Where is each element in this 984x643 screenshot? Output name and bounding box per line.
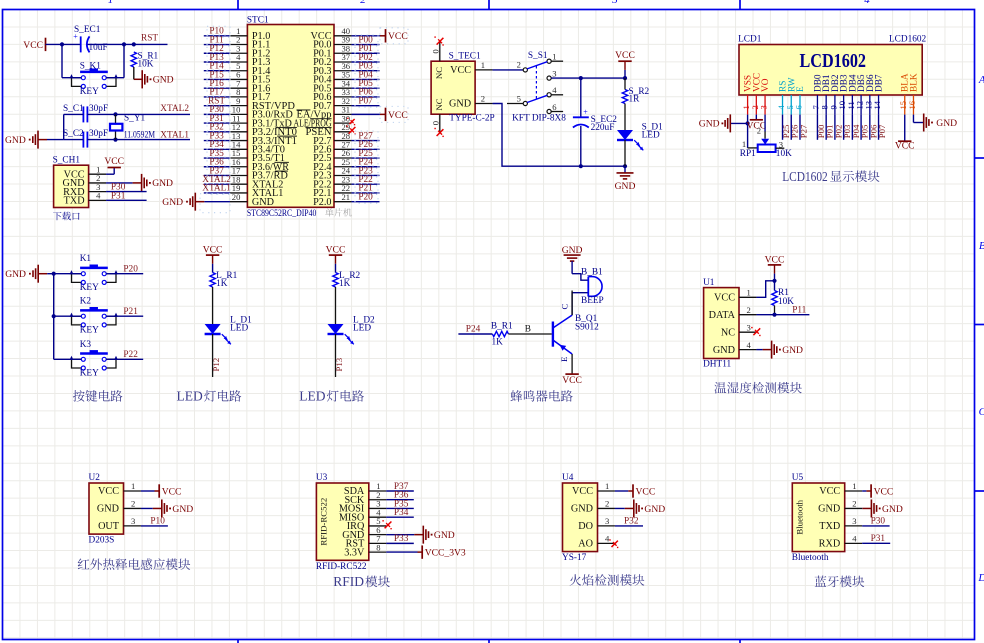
svg-text:1: 1 — [742, 139, 746, 149]
svg-text:VCC: VCC — [765, 254, 785, 265]
svg-text:XTAL2: XTAL2 — [160, 104, 189, 114]
svg-text:VCC: VCC — [572, 486, 593, 497]
svg-text:P33: P33 — [394, 534, 409, 544]
svg-text:0: 0 — [430, 121, 440, 125]
svg-text:8: 8 — [376, 542, 380, 552]
svg-text:3: 3 — [611, 0, 618, 6]
svg-text:LED: LED — [642, 131, 660, 141]
svg-text:30pF: 30pF — [89, 129, 108, 139]
svg-text:P27: P27 — [798, 124, 808, 138]
svg-text:TXD: TXD — [819, 521, 840, 532]
svg-text:A: A — [978, 74, 984, 86]
svg-text:4: 4 — [852, 534, 857, 544]
svg-text:2: 2 — [481, 94, 485, 104]
svg-text:P13: P13 — [334, 357, 344, 371]
svg-text:NC: NC — [434, 98, 444, 110]
svg-text:KEY: KEY — [80, 326, 99, 336]
svg-text:LCD1602: LCD1602 — [889, 35, 927, 45]
svg-text:1: 1 — [481, 60, 485, 70]
svg-text:VCC: VCC — [162, 486, 182, 497]
svg-text:VCC: VCC — [388, 31, 408, 42]
svg-text:P24: P24 — [466, 325, 481, 335]
svg-text:0: 0 — [430, 49, 440, 53]
svg-text:P21: P21 — [123, 307, 138, 317]
svg-text:P20: P20 — [123, 265, 138, 275]
svg-text:D: D — [977, 572, 984, 584]
svg-text:DHT11: DHT11 — [703, 360, 731, 370]
svg-text:VCC: VCC — [819, 486, 840, 497]
svg-text:1K: 1K — [216, 279, 228, 289]
svg-text:YS-17: YS-17 — [562, 553, 587, 563]
svg-text:RFID-RC522: RFID-RC522 — [318, 498, 328, 546]
svg-text:2: 2 — [747, 305, 751, 315]
svg-text:KEY: KEY — [80, 283, 99, 293]
svg-text:D203S: D203S — [89, 536, 115, 546]
svg-text:E: E — [796, 86, 806, 92]
svg-text:LED: LED — [353, 324, 371, 334]
svg-text:1: 1 — [747, 288, 751, 298]
svg-text:STC89C52RC_DIP40: STC89C52RC_DIP40 — [247, 209, 317, 219]
svg-text:BLK: BLK — [909, 73, 919, 92]
svg-text:GND: GND — [882, 504, 903, 515]
svg-text:RST: RST — [141, 34, 158, 44]
svg-text:VCC: VCC — [326, 245, 346, 256]
svg-text:VCC: VCC — [98, 486, 119, 497]
svg-text:P31: P31 — [111, 191, 126, 201]
svg-text:1: 1 — [131, 481, 135, 491]
svg-text:3: 3 — [552, 68, 556, 78]
svg-text:11.0592M: 11.0592M — [124, 131, 155, 141]
svg-text:LED: LED — [299, 389, 325, 404]
svg-text:+: + — [583, 108, 588, 117]
svg-text:10K: 10K — [138, 60, 154, 70]
svg-text:GND: GND — [449, 99, 471, 110]
svg-text:1K: 1K — [339, 279, 351, 289]
svg-text:GND: GND — [172, 504, 193, 515]
svg-text:B: B — [525, 325, 531, 335]
svg-text:S_TEC1: S_TEC1 — [449, 52, 481, 62]
svg-text:3: 3 — [131, 516, 135, 526]
svg-text:VCC: VCC — [203, 245, 223, 256]
svg-text:S_Y1: S_Y1 — [124, 113, 146, 123]
svg-text:2: 2 — [131, 499, 135, 509]
svg-text:VCC: VCC — [714, 293, 735, 304]
svg-text:U5: U5 — [792, 473, 804, 483]
svg-text:BEEP: BEEP — [581, 296, 604, 306]
svg-text:2: 2 — [757, 125, 761, 135]
svg-text:GND: GND — [162, 197, 183, 208]
svg-text:VO: VO — [761, 78, 771, 92]
svg-text:VCC: VCC — [450, 65, 471, 76]
svg-text:P30: P30 — [871, 517, 886, 527]
svg-text:4: 4 — [864, 0, 870, 6]
svg-text:30pF: 30pF — [89, 104, 108, 114]
svg-text:P07: P07 — [358, 96, 373, 106]
svg-text:4: 4 — [552, 85, 557, 95]
svg-text:XTAL1: XTAL1 — [160, 130, 189, 140]
svg-text:2: 2 — [852, 499, 856, 509]
svg-text:16: 16 — [907, 100, 917, 109]
svg-text:20: 20 — [232, 192, 241, 202]
svg-text:1: 1 — [552, 52, 556, 62]
svg-text:RFID-RC522: RFID-RC522 — [316, 562, 367, 572]
svg-text:220uF: 220uF — [591, 123, 615, 133]
svg-text:GND: GND — [562, 245, 583, 256]
svg-text:TXD: TXD — [64, 196, 85, 207]
svg-text:P31: P31 — [871, 534, 886, 544]
svg-text:DB7: DB7 — [875, 74, 885, 92]
svg-text:DO: DO — [578, 521, 593, 532]
svg-text:1R: 1R — [629, 94, 641, 104]
svg-text:10K: 10K — [776, 149, 792, 159]
svg-text:VCC_3V3: VCC_3V3 — [425, 548, 466, 559]
svg-text:P20: P20 — [358, 192, 373, 202]
svg-text:4: 4 — [747, 340, 752, 350]
svg-text:U3: U3 — [316, 473, 328, 483]
svg-text:3: 3 — [759, 105, 769, 109]
svg-text:P22: P22 — [123, 350, 138, 360]
svg-text:3: 3 — [852, 516, 856, 526]
svg-text:VCC: VCC — [104, 156, 124, 167]
svg-text:OUT: OUT — [98, 521, 120, 532]
svg-text:GND: GND — [5, 269, 26, 280]
svg-text:S_K1: S_K1 — [80, 62, 102, 72]
svg-text:4: 4 — [96, 191, 101, 201]
svg-text:5: 5 — [517, 93, 521, 103]
svg-text:Bluetooth: Bluetooth — [794, 499, 804, 534]
svg-text:GND: GND — [434, 530, 455, 541]
svg-text:P12: P12 — [211, 358, 221, 372]
svg-text:VCC: VCC — [615, 50, 635, 61]
svg-text:S_C2: S_C2 — [63, 129, 84, 139]
svg-text:2: 2 — [605, 499, 609, 509]
svg-text:S9012: S9012 — [575, 323, 599, 333]
svg-text:C: C — [560, 304, 570, 310]
svg-text:Bluetooth: Bluetooth — [792, 553, 829, 563]
svg-text:14: 14 — [872, 100, 882, 109]
svg-text:U2: U2 — [89, 473, 101, 483]
svg-text:NC: NC — [721, 327, 735, 338]
svg-text:1: 1 — [108, 0, 114, 6]
svg-text:S_S1: S_S1 — [528, 51, 548, 61]
svg-text:4: 4 — [605, 534, 610, 544]
svg-text:VCC: VCC — [388, 110, 408, 121]
svg-text:2: 2 — [360, 0, 366, 6]
svg-text:6: 6 — [552, 102, 557, 112]
svg-text:LED: LED — [230, 324, 248, 334]
svg-text:DATA: DATA — [709, 310, 736, 321]
svg-text:P34: P34 — [394, 508, 409, 518]
svg-text:21: 21 — [342, 192, 351, 202]
svg-text:P07: P07 — [877, 124, 887, 138]
svg-text:GND: GND — [936, 118, 957, 129]
svg-text:1: 1 — [852, 481, 856, 491]
svg-text:3: 3 — [605, 516, 609, 526]
svg-text:KEY: KEY — [80, 87, 99, 97]
svg-text:LCD1602: LCD1602 — [782, 169, 828, 184]
svg-text:1: 1 — [605, 481, 609, 491]
svg-text:U4: U4 — [562, 473, 574, 483]
svg-text:GND: GND — [5, 135, 26, 146]
svg-text:GND: GND — [252, 197, 274, 208]
svg-text:GND: GND — [153, 75, 174, 86]
svg-text:GND: GND — [699, 119, 720, 130]
svg-text:B_R1: B_R1 — [491, 322, 513, 332]
svg-text:1K: 1K — [492, 338, 504, 348]
svg-text:LED: LED — [177, 389, 203, 404]
svg-text:RFID: RFID — [333, 574, 364, 589]
svg-text:S_EC1: S_EC1 — [74, 25, 101, 35]
svg-text:GND: GND — [713, 345, 735, 356]
svg-text:GND: GND — [818, 504, 840, 515]
svg-text:S_C1: S_C1 — [63, 104, 84, 114]
svg-text:TYPE-C-2P: TYPE-C-2P — [449, 113, 494, 123]
svg-text:P2.0: P2.0 — [313, 197, 331, 208]
svg-text:STC1: STC1 — [247, 16, 269, 26]
svg-text:VCC: VCC — [895, 140, 915, 151]
svg-text:K1: K1 — [80, 254, 92, 264]
svg-text:NC: NC — [434, 67, 444, 79]
svg-text:P11: P11 — [792, 306, 806, 316]
svg-text:3: 3 — [747, 322, 751, 332]
svg-text:B: B — [979, 240, 984, 252]
svg-text:S_CH1: S_CH1 — [53, 156, 81, 166]
svg-text:VCC: VCC — [562, 375, 582, 386]
svg-text:VCC: VCC — [874, 486, 894, 497]
svg-text:VCC: VCC — [636, 486, 656, 497]
svg-text:RXD: RXD — [819, 539, 841, 550]
svg-text:AO: AO — [578, 539, 593, 550]
svg-text:RP1: RP1 — [740, 149, 756, 159]
svg-text:3: 3 — [779, 139, 783, 149]
svg-text:VCC: VCC — [23, 40, 43, 51]
svg-text:K2: K2 — [80, 297, 92, 307]
svg-text:C: C — [979, 406, 984, 418]
svg-text:KFT DIP-8X8: KFT DIP-8X8 — [512, 114, 566, 124]
svg-text:2: 2 — [517, 60, 521, 70]
svg-text:E: E — [559, 357, 569, 362]
svg-text:B_B1: B_B1 — [581, 267, 603, 277]
svg-text:6: 6 — [793, 105, 803, 110]
svg-text:GND: GND — [782, 345, 803, 356]
svg-text:GND: GND — [152, 178, 173, 189]
svg-text:LCD1602: LCD1602 — [800, 51, 867, 72]
svg-text:P10: P10 — [150, 517, 165, 527]
svg-text:LCD1: LCD1 — [738, 35, 762, 45]
svg-text:GND: GND — [615, 181, 636, 192]
svg-text:GND: GND — [571, 504, 593, 515]
svg-text:GND: GND — [644, 504, 665, 515]
svg-text:P32: P32 — [624, 517, 639, 527]
svg-text:K3: K3 — [80, 340, 92, 350]
svg-text:U1: U1 — [703, 278, 715, 288]
svg-text:3.3V: 3.3V — [344, 547, 365, 558]
svg-text:KEY: KEY — [80, 369, 99, 379]
svg-text:GND: GND — [97, 504, 119, 515]
